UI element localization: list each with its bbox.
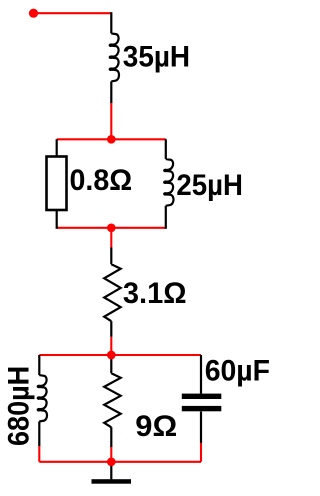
svg-text:3.1Ω: 3.1Ω bbox=[123, 277, 187, 310]
svg-text:25µH: 25µH bbox=[176, 169, 243, 202]
svg-text:680µH: 680µH bbox=[3, 366, 36, 446]
svg-text:9Ω: 9Ω bbox=[135, 410, 177, 443]
svg-text:60µF: 60µF bbox=[205, 355, 270, 388]
svg-text:35µH: 35µH bbox=[123, 41, 190, 74]
svg-text:0.8Ω: 0.8Ω bbox=[70, 164, 133, 197]
